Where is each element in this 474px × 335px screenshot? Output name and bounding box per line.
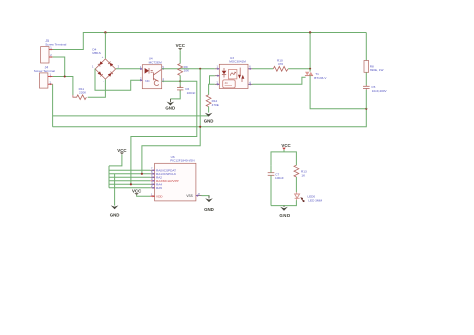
svg-text:ZC: ZC: [225, 81, 229, 85]
svg-text:-: -: [103, 80, 104, 83]
capacitor C7: [268, 166, 284, 206]
wire VSS to GND: [202, 196, 210, 198]
wire GND rail left: [53, 115, 209, 117]
resistor R10: [273, 58, 288, 71]
svg-text:RA5: RA5: [156, 186, 162, 190]
svg-text:BT136-V: BT136-V: [314, 76, 327, 80]
wire R8 to C5: [365, 72, 367, 85]
wire R11 to bridge minus: [88, 79, 106, 97]
svg-text:LED 3MM: LED 3MM: [308, 199, 322, 203]
ground GND LED: [279, 206, 290, 218]
svg-text:100nF: 100nF: [187, 91, 196, 95]
svg-text:MCT2EM: MCT2EM: [149, 60, 162, 64]
ground GND VSS: [204, 196, 214, 212]
wire bridge top: [104, 33, 106, 59]
wire U4 emitter rail down to MCU RA4: [131, 81, 197, 184]
power VCC LED: [281, 143, 291, 152]
power VCC MCU: [109, 148, 127, 166]
svg-text:PIC12F1840-I/SN: PIC12F1840-I/SN: [170, 159, 194, 163]
node snubber bottom junction: [365, 108, 367, 110]
svg-text:MOC3041M: MOC3041M: [229, 60, 246, 64]
pin stub U3 left pins: [215, 68, 220, 70]
power VCC R9: [176, 43, 186, 64]
wire U3 pin6 to R10: [253, 68, 274, 70]
svg-text:VDD: VDD: [156, 194, 163, 198]
capacitor C6: [177, 86, 195, 96]
svg-text:GND: GND: [279, 213, 290, 218]
resistor R9: [178, 64, 190, 76]
svg-text:VCC: VCC: [176, 43, 186, 48]
power VCC VDD: [132, 188, 150, 196]
triac T1: [305, 69, 327, 80]
svg-text:100nF: 100nF: [275, 176, 284, 180]
node snubber rail junction: [199, 126, 201, 128]
wire R12 to GND: [208, 107, 210, 113]
wire R9 to junction: [179, 75, 181, 87]
LED LED2: [295, 192, 323, 203]
screw terminal J4: [34, 65, 55, 88]
ground GND MCU left: [110, 205, 120, 217]
svg-text:MB1S: MB1S: [92, 51, 100, 55]
node RA4 tap: [130, 183, 132, 185]
wire collector tap down to MCU RA1: [142, 69, 200, 174]
node emitter R9 junction: [179, 80, 181, 82]
ground GND under R12: [204, 113, 214, 124]
bridge rectifier D4: [92, 48, 120, 84]
resistor R13: [294, 165, 307, 177]
screw terminal J5: [41, 39, 67, 63]
wire J4 pin1 net: [53, 77, 73, 96]
svg-text:VSS: VSS: [186, 194, 192, 198]
resistor R8: [364, 61, 383, 73]
wire MCU input rows: [109, 166, 150, 188]
svg-text:VCC: VCC: [117, 148, 127, 153]
wire bridge pin2 to U4 anode: [116, 68, 143, 70]
resistor R12: [206, 95, 219, 107]
svg-text:10K: 10K: [184, 69, 190, 73]
wire C5 to junction: [365, 90, 367, 109]
svg-text:GND: GND: [204, 118, 214, 123]
svg-text:Screw Terminal: Screw Terminal: [34, 69, 55, 73]
wire LED loop: [271, 152, 296, 166]
wire C6 to GND: [170, 90, 180, 99]
node collector tap: [199, 68, 201, 70]
optocoupler U4: [140, 57, 164, 89]
pin stub U3 pin2: [215, 75, 220, 77]
wire R13 to LED: [295, 177, 297, 192]
svg-text:Screw Terminal: Screw Terminal: [45, 43, 66, 47]
wire R10 to triac junction: [288, 68, 310, 70]
svg-text:GND: GND: [204, 207, 214, 212]
wire GND drop RA1: [114, 174, 116, 206]
node bridge top junction: [104, 31, 106, 33]
wire U3 cathode to R12: [209, 84, 215, 95]
svg-text:220K: 220K: [79, 91, 87, 95]
node RA1 tap: [141, 173, 143, 175]
pin stub U6 RA pins: [150, 167, 201, 198]
wire triac MT2 vertical: [309, 33, 311, 70]
wire U3 pin2 jog: [210, 76, 215, 85]
MCU U6: [155, 155, 196, 201]
wire U3 pin4 to triac gate: [253, 77, 306, 84]
svg-text:10nF,400V: 10nF,400V: [372, 89, 388, 93]
svg-text:470: 470: [278, 62, 283, 66]
wire J5 pin2 to junction: [53, 57, 65, 77]
svg-text:VCC: VCC: [132, 188, 142, 193]
node J4/J5 junction: [64, 75, 66, 77]
wire bridge pin1 to U4 cathode: [95, 69, 142, 91]
node triac MT2 node: [309, 68, 311, 70]
capacitor C5: [363, 85, 388, 93]
svg-text:NC: NC: [145, 79, 150, 83]
wire J4 pin2 down: [52, 84, 54, 127]
svg-text:GND: GND: [110, 213, 120, 218]
svg-text:390E, 1W: 390E, 1W: [370, 68, 384, 72]
wire triac MT1 down: [310, 75, 366, 109]
node triac top junction: [309, 31, 311, 33]
wire U4 collector to U3 anode: [162, 68, 215, 70]
wire LED to bottom: [271, 200, 296, 205]
ground GND under C6: [165, 99, 175, 111]
svg-text:470E: 470E: [212, 103, 219, 107]
optocoupler U3: [217, 56, 252, 89]
resistor R11: [73, 87, 87, 100]
wire top rail to R8: [365, 33, 367, 61]
wire snubber long rail: [53, 109, 367, 127]
wire top AC line: [53, 33, 367, 50]
svg-text:VCC: VCC: [281, 143, 291, 148]
svg-text:GND: GND: [165, 105, 175, 110]
